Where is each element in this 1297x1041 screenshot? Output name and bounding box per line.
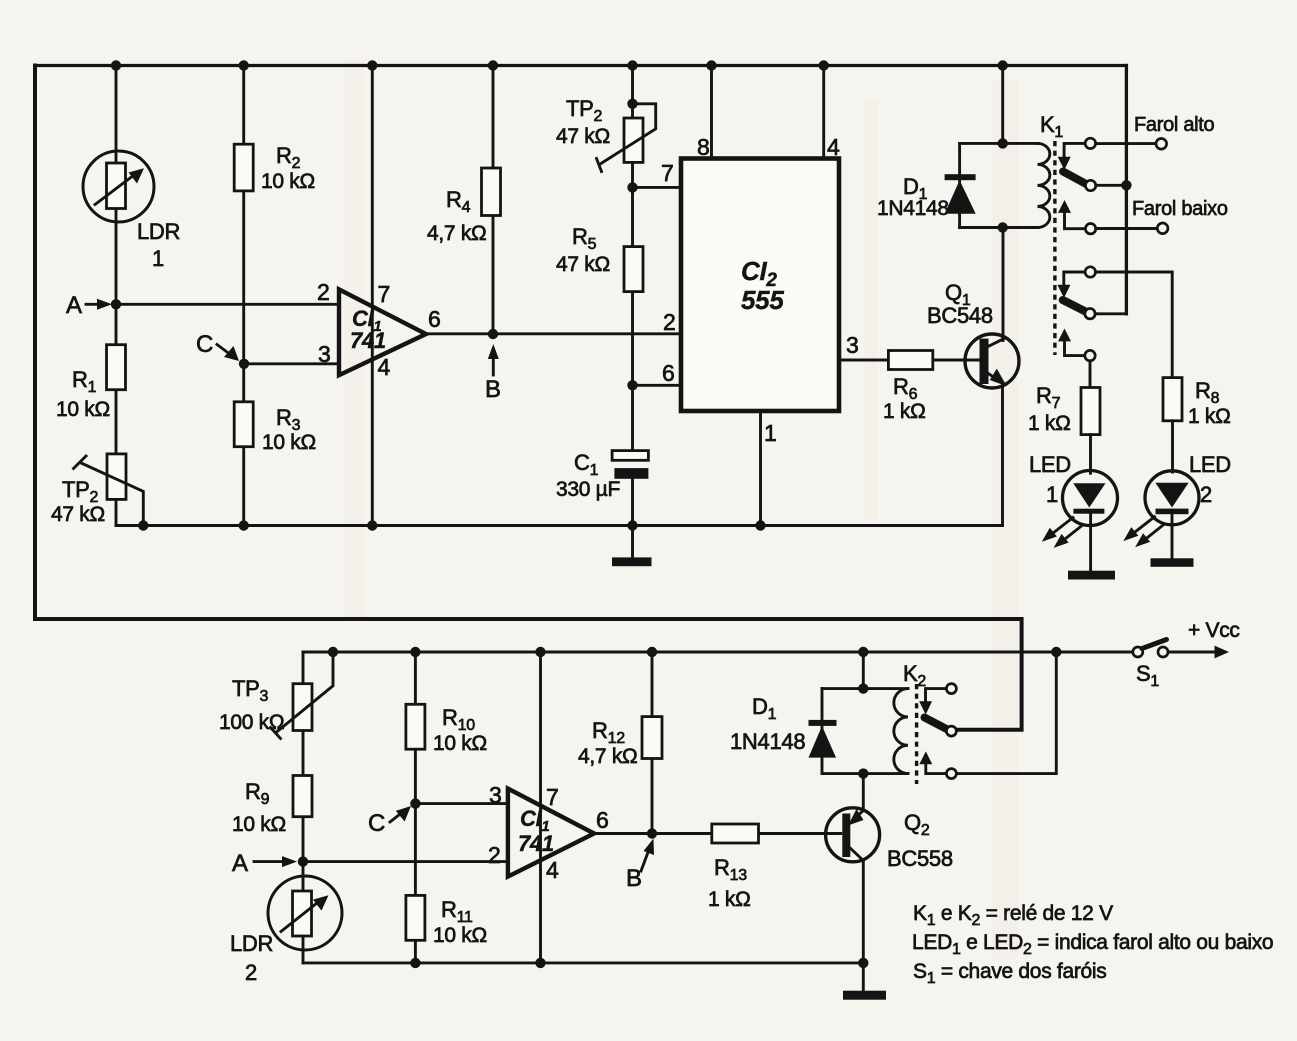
svg-text:10 kΩ: 10 kΩ bbox=[262, 431, 316, 454]
node C label (lower) bbox=[368, 806, 411, 837]
svg-text:B: B bbox=[626, 865, 642, 892]
svg-text:A: A bbox=[66, 292, 82, 319]
ground below Q2 bbox=[843, 991, 886, 1000]
relay K1 coil bbox=[1038, 112, 1064, 228]
svg-text:1 kΩ: 1 kΩ bbox=[883, 400, 926, 423]
svg-text:3: 3 bbox=[489, 782, 502, 808]
svg-text:2: 2 bbox=[488, 842, 501, 868]
svg-text:10 kΩ: 10 kΩ bbox=[232, 813, 286, 836]
svg-text:BC558: BC558 bbox=[887, 846, 953, 871]
wire LDR1 R1 TP2 column bbox=[115, 66, 118, 526]
svg-text:8: 8 bbox=[697, 134, 710, 160]
svg-text:Farol baixo: Farol baixo bbox=[1132, 198, 1228, 220]
svg-text:1: 1 bbox=[764, 420, 777, 446]
wire D1 branch vertical bbox=[958, 143, 961, 227]
svg-text:47 kΩ: 47 kΩ bbox=[556, 125, 610, 148]
svg-text:LDR: LDR bbox=[137, 219, 180, 244]
wire op-amp output to R13 and Q2 base bbox=[594, 832, 841, 835]
svg-text:6: 6 bbox=[596, 807, 609, 833]
resistor R4 bbox=[427, 168, 501, 245]
svg-text:C: C bbox=[368, 810, 385, 837]
svg-text:10 kΩ: 10 kΩ bbox=[261, 170, 315, 193]
svg-text:4: 4 bbox=[827, 134, 840, 160]
wire TP3 R9 LDR2 column bbox=[302, 652, 305, 963]
wire K2 coil bottom / D1 bottom (lower) bbox=[822, 772, 908, 775]
diode D1 (upper) 1N4148 bbox=[877, 174, 976, 220]
svg-text:1: 1 bbox=[1046, 482, 1058, 507]
LDR 2 bbox=[230, 876, 342, 985]
svg-text:2: 2 bbox=[245, 960, 257, 985]
wire 555 pin 3 to R6 bbox=[839, 359, 980, 362]
svg-text:47 kΩ: 47 kΩ bbox=[51, 503, 105, 526]
relay K1 pole 1 NO contact (Farol alto) bbox=[1058, 114, 1215, 170]
resistor R2 bbox=[234, 143, 315, 193]
resistor R8 bbox=[1163, 378, 1231, 472]
wire R10 R11 column bbox=[414, 652, 417, 963]
wire R2 R3 column bbox=[242, 66, 245, 526]
node A label bbox=[66, 292, 112, 319]
wire 555 pin 7 bbox=[633, 186, 682, 189]
wire Q1 collector up to relay bbox=[1002, 228, 1005, 341]
svg-text:7: 7 bbox=[546, 784, 559, 810]
svg-text:3: 3 bbox=[846, 332, 859, 358]
svg-text:10 kΩ: 10 kΩ bbox=[433, 732, 487, 755]
svg-text:LED: LED bbox=[1029, 452, 1071, 477]
wire K2 coil top / D1 top (lower) bbox=[822, 687, 908, 690]
relay K1 pole 1 common bbox=[1085, 180, 1126, 190]
svg-text:1 kΩ: 1 kΩ bbox=[1188, 405, 1231, 428]
svg-text:3: 3 bbox=[318, 341, 331, 367]
svg-text:LDR: LDR bbox=[230, 931, 273, 956]
wire Q2 collector emitter verticals bbox=[862, 774, 865, 963]
svg-text:6: 6 bbox=[428, 306, 441, 332]
relay K1 pole 2 NO contact bbox=[1057, 267, 1172, 378]
svg-text:555: 555 bbox=[741, 285, 784, 315]
svg-text:A: A bbox=[232, 850, 248, 877]
svg-text:1 kΩ: 1 kΩ bbox=[1028, 412, 1071, 435]
trimpot TP2 lower bbox=[51, 454, 143, 526]
svg-text:10 kΩ: 10 kΩ bbox=[433, 924, 487, 947]
wire K2 D1 column top bbox=[862, 652, 865, 689]
resistor R1 bbox=[56, 345, 126, 421]
capacitor C1 bbox=[556, 450, 648, 501]
svg-text:LED1 e LED2 = indica farol alt: LED1 e LED2 = indica farol alto ou baixo bbox=[912, 931, 1273, 958]
wire R4 column bbox=[492, 66, 495, 335]
transistor Q1 BC548 bbox=[927, 280, 1019, 388]
diode D1 (lower) 1N4148 bbox=[730, 694, 837, 758]
wire node A to op-amp pin 2 (lower) bbox=[303, 860, 508, 863]
wire top rail right drop to K1 pole 2 common bbox=[1125, 66, 1128, 314]
ground below LED 1 bbox=[1068, 571, 1115, 580]
wire node C to op-amp pin 3 bbox=[244, 362, 339, 365]
svg-text:6: 6 bbox=[662, 360, 675, 386]
node B label (upper) bbox=[485, 344, 501, 403]
wire D1 lower branch vertical bbox=[821, 689, 824, 774]
relay K1 armature dashed link bbox=[1053, 141, 1056, 355]
wire op-amp supply column pins 7-4 bbox=[371, 66, 374, 526]
relay K2 blade bbox=[925, 718, 949, 731]
resistor R11 bbox=[406, 895, 487, 947]
wire frame left and bottom (power from K2) bbox=[35, 66, 1022, 730]
relay K2 armature dashed link bbox=[915, 684, 918, 784]
ground below LED 2 bbox=[1151, 558, 1194, 567]
wire top Vcc rail bbox=[35, 64, 1126, 67]
resistor R5 bbox=[556, 224, 643, 292]
svg-text:BC548: BC548 bbox=[927, 303, 993, 328]
junction dots top section bbox=[111, 60, 1132, 530]
svg-text:+ Vcc: + Vcc bbox=[1188, 619, 1240, 642]
wire R12 column bbox=[651, 652, 654, 834]
resistor R10 bbox=[406, 704, 487, 755]
wire Q2 ground stem bbox=[862, 963, 865, 991]
wire node A to op-amp pin 2 bbox=[116, 303, 339, 306]
svg-text:47 kΩ: 47 kΩ bbox=[556, 253, 610, 276]
LED 1 bbox=[1029, 452, 1118, 571]
wire 555 pin 8 bbox=[710, 66, 713, 159]
svg-text:B: B bbox=[485, 376, 501, 403]
junction dots bottom section bbox=[298, 647, 1062, 968]
svg-text:330 µF: 330 µF bbox=[556, 478, 620, 501]
relay K2 NO contact bbox=[919, 684, 956, 715]
svg-text:S1 = chave dos faróis: S1 = chave dos faróis bbox=[913, 960, 1106, 987]
svg-text:LED: LED bbox=[1189, 452, 1231, 477]
node B label (lower) bbox=[626, 839, 654, 893]
resistor R3 bbox=[234, 402, 316, 454]
node A label (lower) bbox=[232, 850, 297, 877]
op-amp U1 CI1 741 (upper) bbox=[317, 279, 441, 380]
wire K1 coil bottom / D1 bottom bbox=[960, 226, 1038, 229]
svg-text:1 kΩ: 1 kΩ bbox=[708, 888, 751, 911]
wire lower ground rail bbox=[303, 961, 863, 964]
wire TP2 R5 C1 column bbox=[631, 66, 634, 526]
wire op-amp output to 555 pin 2 bbox=[426, 332, 681, 335]
trimpot TP3 bbox=[219, 652, 333, 739]
wire 555 pin 6 bbox=[633, 384, 682, 387]
svg-text:K1 e K2 = relé de 12 V: K1 e K2 = relé de 12 V bbox=[913, 902, 1113, 929]
wire 555 pin 4 bbox=[822, 66, 825, 159]
svg-text:1N4148: 1N4148 bbox=[877, 197, 949, 220]
wire K1 coil top / D1 top bbox=[960, 142, 1038, 145]
svg-text:2: 2 bbox=[1200, 482, 1212, 507]
svg-text:7: 7 bbox=[378, 281, 391, 307]
relay K2 common bbox=[946, 726, 956, 736]
resistor R7 bbox=[1028, 383, 1100, 473]
IC U2 CI2 555 bbox=[661, 134, 859, 446]
svg-text:1N4148: 1N4148 bbox=[730, 729, 805, 754]
svg-text:C: C bbox=[196, 331, 213, 358]
wire op-amp supply column pins 7-4 (lower) bbox=[539, 652, 542, 963]
svg-text:741: 741 bbox=[518, 831, 554, 856]
svg-text:10 kΩ: 10 kΩ bbox=[56, 398, 110, 421]
svg-text:741: 741 bbox=[350, 328, 386, 353]
switch S1 bbox=[1133, 640, 1168, 691]
wire top ground bus bbox=[116, 524, 1003, 527]
ground below C1 bbox=[612, 526, 652, 567]
wire D1 K1 feed column bbox=[1001, 66, 1004, 144]
resistor R6 bbox=[883, 351, 933, 424]
relay K1 pole 1 blade bbox=[1063, 172, 1088, 186]
resistor R12 bbox=[578, 717, 662, 768]
svg-text:4: 4 bbox=[378, 354, 391, 380]
LDR 1 bbox=[83, 151, 180, 271]
svg-text:7: 7 bbox=[661, 160, 674, 186]
LED 2 bbox=[1123, 452, 1231, 558]
op-amp U1 CI1 741 (lower) bbox=[488, 782, 609, 883]
svg-text:4,7 kΩ: 4,7 kΩ bbox=[578, 745, 637, 768]
resistor R13 bbox=[708, 824, 759, 911]
svg-text:2: 2 bbox=[663, 309, 676, 335]
relay K1 pole 1 NC contact (Farol baixo) bbox=[1058, 198, 1228, 234]
wire K2 NC to lower rail bbox=[956, 652, 1056, 774]
wire 555 pin 1 bbox=[759, 411, 762, 526]
svg-text:2: 2 bbox=[317, 279, 330, 305]
svg-text:1: 1 bbox=[152, 246, 164, 271]
svg-text:100 kΩ: 100 kΩ bbox=[219, 711, 284, 734]
resistor R9 bbox=[232, 776, 312, 837]
relay K2 coil bbox=[894, 661, 927, 774]
trimpot TP2 upper bbox=[556, 96, 656, 172]
svg-text:4,7 kΩ: 4,7 kΩ bbox=[427, 222, 486, 245]
node C label bbox=[196, 331, 239, 361]
relay K1 pole 2 blade bbox=[1063, 300, 1088, 313]
svg-text:Farol alto: Farol alto bbox=[1134, 114, 1215, 136]
wire S1 to Vcc arrow bbox=[1168, 651, 1217, 654]
transistor Q2 BC558 bbox=[826, 808, 953, 871]
wire lower Vcc rail bbox=[303, 651, 1133, 654]
relay K1 pole 2 common bbox=[1085, 309, 1127, 319]
svg-text:4: 4 bbox=[546, 857, 559, 883]
relay K2 NC contact bbox=[919, 751, 956, 778]
relay K1 pole 2 NC contact bbox=[1058, 329, 1095, 388]
wire Q1 emitter down to bus bbox=[1001, 384, 1004, 526]
wire node C to op-amp pin 3 (lower) bbox=[415, 802, 508, 805]
